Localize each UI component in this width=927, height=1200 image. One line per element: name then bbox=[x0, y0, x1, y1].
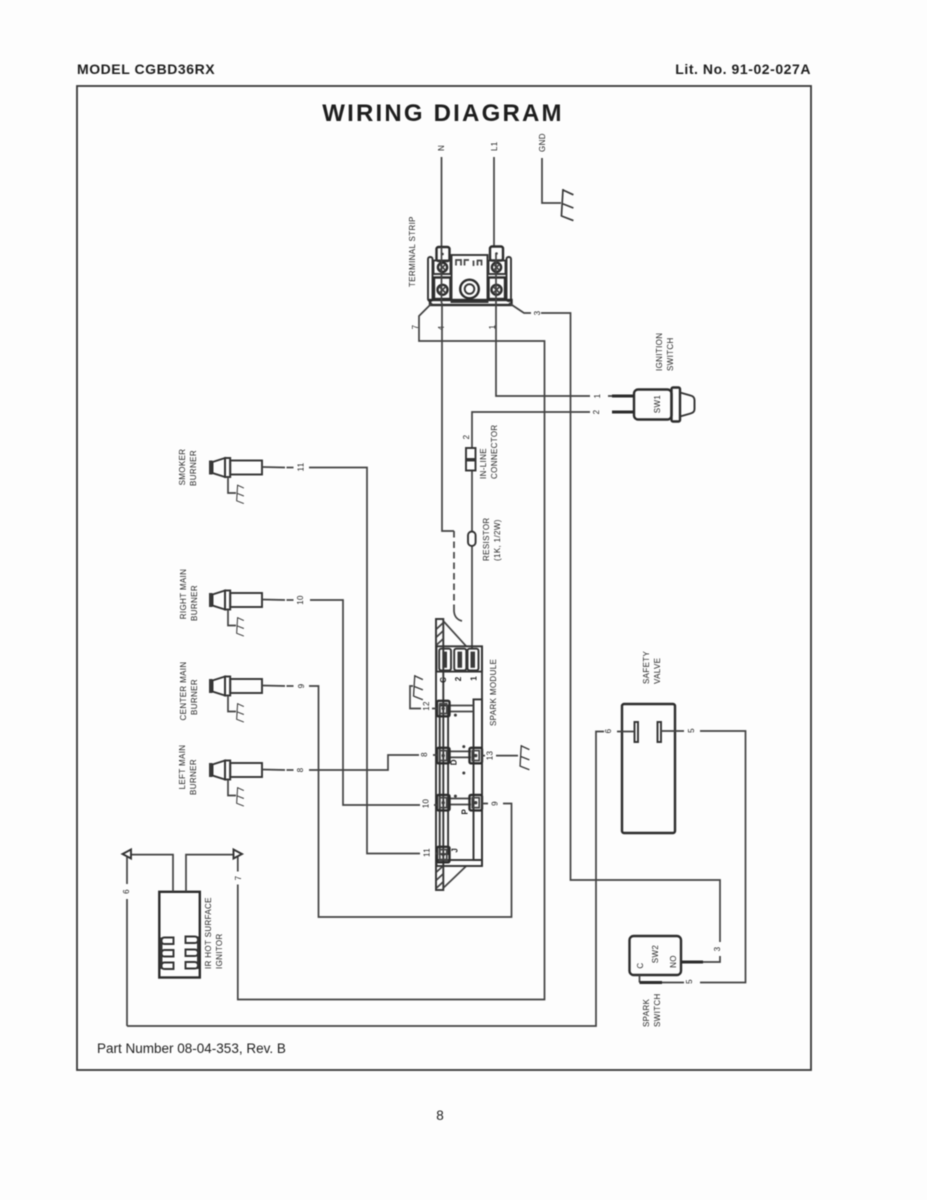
spade slots box bbox=[437, 646, 483, 671]
terminal strip left lower screw block bbox=[434, 278, 451, 300]
svg-text:L1: L1 bbox=[490, 141, 499, 151]
svg-text:CONNECTOR: CONNECTOR bbox=[490, 424, 499, 479]
wire 2: ignition switch to spark module via connector and resistor bbox=[472, 412, 590, 648]
ground at left main burner bbox=[237, 787, 244, 806]
svg-text:IR HOT SURFACE: IR HOT SURFACE bbox=[204, 897, 213, 969]
svg-text:11: 11 bbox=[297, 462, 306, 471]
ground chassis symbol at GND bbox=[561, 189, 573, 221]
wire 6: safety valve to IR ignitor connector bbox=[127, 732, 635, 1027]
svg-text:8: 8 bbox=[420, 752, 429, 757]
wire 4 dashed segment to spark module bbox=[453, 531, 455, 611]
terminal 13 bbox=[470, 748, 483, 764]
ground at smoker burner bbox=[237, 485, 244, 504]
ground at right main burner bbox=[237, 617, 244, 636]
SW2 body bbox=[630, 936, 682, 975]
svg-text:VALVE: VALVE bbox=[653, 658, 662, 684]
svg-text:8: 8 bbox=[436, 1108, 444, 1123]
svg-text:RIGHT MAIN: RIGHT MAIN bbox=[179, 569, 188, 619]
smoker burner ground lead bbox=[228, 477, 236, 493]
SW1 body bbox=[634, 390, 672, 420]
disconnect arrow 6 bbox=[123, 850, 132, 859]
SW2 C lead and spade bbox=[639, 975, 641, 983]
center main burner ground lead bbox=[228, 696, 236, 712]
svg-text:GND: GND bbox=[538, 133, 547, 152]
svg-text:CENTER MAIN: CENTER MAIN bbox=[179, 662, 188, 721]
svg-text:10: 10 bbox=[422, 799, 431, 809]
wire 9: terminal 9 to center main burner bbox=[309, 686, 512, 917]
ignitor body bbox=[159, 892, 200, 978]
svg-text:2: 2 bbox=[592, 409, 601, 414]
svg-text:6: 6 bbox=[122, 889, 131, 894]
terminal strip left quick-connect tab bbox=[437, 247, 450, 261]
wire 8: left main burner to terminal 8 bbox=[309, 755, 437, 770]
module left rib bbox=[440, 706, 448, 855]
svg-text:D: D bbox=[450, 759, 459, 765]
resistor R1 (1K, 1/2W) bbox=[468, 517, 502, 561]
svg-text:NO: NO bbox=[669, 955, 678, 968]
right main burner ground lead bbox=[228, 610, 236, 626]
svg-text:N: N bbox=[437, 145, 446, 151]
svg-text:IGNITION: IGNITION bbox=[655, 333, 664, 371]
svg-text:SPARK MODULE: SPARK MODULE bbox=[489, 659, 498, 726]
module rivet dots bbox=[454, 714, 457, 717]
terminal 11 bbox=[437, 847, 450, 863]
ground at center main burner bbox=[237, 703, 244, 722]
safety valve left terminal bar bbox=[635, 722, 639, 742]
SW1 button bbox=[680, 393, 695, 417]
spark module U1 bbox=[436, 619, 498, 890]
bottom gusset bbox=[443, 866, 466, 888]
terminal strip left mounting ear bbox=[428, 257, 433, 301]
terminal strip right quick-connect tab bbox=[490, 247, 503, 261]
spark switch SW2 bbox=[630, 936, 704, 1027]
svg-text:9: 9 bbox=[297, 683, 306, 688]
terminal strip base bbox=[430, 300, 512, 305]
svg-text:BURNER: BURNER bbox=[190, 679, 199, 715]
terminal strip right mounting ear bbox=[507, 257, 512, 301]
svg-text:1: 1 bbox=[593, 393, 602, 398]
wire GND lead bbox=[542, 158, 561, 203]
SW1 pin 1 bbox=[612, 395, 634, 398]
wire 5: safety valve to spark switch bbox=[661, 731, 746, 983]
svg-text:12: 12 bbox=[422, 701, 431, 711]
ignitor element right comb bbox=[186, 937, 199, 970]
spark module left mounting flange bbox=[436, 619, 443, 890]
SW1 pin 2 bbox=[612, 411, 634, 414]
svg-text:TERMINAL STRIP: TERMINAL STRIP bbox=[408, 216, 417, 287]
svg-text:(1K, 1/2W): (1K, 1/2W) bbox=[493, 519, 502, 561]
smoker burner igniter bbox=[209, 458, 294, 504]
terminal strip right upper screw block bbox=[489, 261, 506, 275]
module right rib bbox=[474, 699, 483, 860]
svg-text:BURNER: BURNER bbox=[189, 759, 198, 795]
svg-text:SWITCH: SWITCH bbox=[653, 993, 662, 1027]
wire N to terminal strip bbox=[441, 157, 443, 247]
svg-text:J: J bbox=[451, 848, 460, 852]
diagram border frame bbox=[77, 86, 811, 1070]
wire 10: right main burner to terminal 10 bbox=[310, 600, 437, 805]
svg-text:9: 9 bbox=[491, 801, 500, 806]
SW1 collar bbox=[672, 388, 681, 422]
svg-text:P: P bbox=[460, 808, 469, 814]
terminal strip TS1 bbox=[408, 216, 512, 305]
svg-text:10: 10 bbox=[296, 595, 305, 605]
right main burner igniter bbox=[209, 591, 294, 637]
ignitor left lead bbox=[131, 855, 173, 892]
svg-text:3: 3 bbox=[713, 946, 722, 951]
wire 1: terminal strip to ignition switch bbox=[496, 303, 612, 396]
bar terminal 8 to terminal 13 bbox=[450, 751, 472, 757]
terminal strip left upper screw block bbox=[434, 261, 451, 275]
svg-text:BURNER: BURNER bbox=[190, 585, 199, 621]
svg-text:5: 5 bbox=[687, 728, 696, 733]
svg-text:7: 7 bbox=[234, 875, 243, 880]
terminal 10 bbox=[437, 795, 450, 811]
wire terminal 13 to chassis ground bbox=[482, 755, 518, 757]
svg-text:MODEL CGBD36RX: MODEL CGBD36RX bbox=[77, 61, 215, 77]
svg-text:SW2: SW2 bbox=[651, 945, 660, 964]
wire terminal 12 to chassis ground bbox=[410, 686, 437, 709]
terminal 9 bbox=[470, 795, 483, 811]
svg-text:Lit. No. 91-02-027A: Lit. No. 91-02-027A bbox=[675, 61, 811, 77]
module body right edge bbox=[481, 646, 483, 866]
bar terminal 10 to terminal 9 bbox=[450, 799, 472, 805]
svg-text:RESISTOR: RESISTOR bbox=[482, 517, 491, 561]
terminal strip center screw boss bbox=[460, 280, 479, 299]
terminal 12 bbox=[437, 701, 450, 717]
safety valve body bbox=[622, 704, 675, 833]
left main burner ground lead bbox=[228, 780, 236, 796]
flange hatch top bbox=[437, 623, 444, 645]
svg-text:IN-LINE: IN-LINE bbox=[479, 448, 488, 479]
wire 3: terminal strip to spark switch NO bbox=[509, 303, 720, 962]
wire 11: smoker burner to terminal 11 bbox=[309, 468, 437, 854]
terminal strip center block bbox=[452, 255, 488, 302]
svg-text:2: 2 bbox=[454, 676, 463, 681]
module bottom bar bbox=[437, 860, 483, 866]
svg-text:SW1: SW1 bbox=[653, 395, 662, 414]
ground at spark module terminal 13 bbox=[520, 745, 529, 770]
ignitor element left comb bbox=[162, 938, 174, 970]
wire 4 hook at spark module bbox=[454, 611, 462, 621]
svg-text:C: C bbox=[439, 677, 448, 683]
svg-text:2: 2 bbox=[462, 434, 471, 439]
svg-text:SAFETY: SAFETY bbox=[642, 650, 651, 684]
safety valve bbox=[622, 650, 675, 833]
terminal 8 bbox=[437, 748, 450, 764]
svg-text:11: 11 bbox=[423, 848, 432, 857]
disconnect arrow 7 bbox=[234, 850, 243, 859]
IR hot surface ignitor bbox=[123, 850, 243, 978]
svg-text:6: 6 bbox=[604, 728, 613, 733]
terminal strip molded marking bbox=[456, 260, 482, 266]
svg-text:1: 1 bbox=[470, 676, 479, 681]
slot 1 bbox=[468, 649, 479, 671]
svg-text:WIRING DIAGRAM: WIRING DIAGRAM bbox=[322, 100, 563, 127]
ignition switch SW1 bbox=[592, 333, 695, 422]
svg-text:BURNER: BURNER bbox=[189, 450, 198, 486]
ignitor right lead bbox=[186, 855, 234, 892]
svg-text:Part Number 08-04-353, Rev. B: Part Number 08-04-353, Rev. B bbox=[97, 1041, 286, 1056]
terminal strip right lower screw block bbox=[489, 278, 506, 300]
center main burner igniter bbox=[209, 677, 294, 723]
left main burner igniter bbox=[209, 761, 294, 807]
safety valve right terminal bar bbox=[658, 722, 662, 742]
wire L1 to terminal strip bbox=[493, 157, 495, 247]
top gusset bbox=[443, 621, 466, 646]
in-line connector bbox=[466, 424, 499, 479]
SW2 NO spade bbox=[681, 961, 703, 964]
svg-text:SPARK: SPARK bbox=[642, 998, 651, 1027]
bar terminal 12 to right rib bbox=[450, 706, 474, 712]
slot C bbox=[439, 649, 451, 671]
svg-text:8: 8 bbox=[296, 767, 305, 772]
svg-text:LEFT MAIN: LEFT MAIN bbox=[178, 745, 187, 790]
svg-text:3: 3 bbox=[533, 310, 542, 315]
slot 2 bbox=[454, 649, 466, 671]
svg-text:5: 5 bbox=[685, 979, 694, 984]
svg-text:SMOKER: SMOKER bbox=[178, 449, 187, 486]
wire 7: terminal strip to IR ignitor connector bbox=[238, 303, 545, 1000]
flange hatch bottom bbox=[437, 866, 444, 888]
svg-text:C: C bbox=[636, 962, 645, 968]
wire N through strip bbox=[441, 247, 443, 303]
svg-text:IGNITOR: IGNITOR bbox=[215, 933, 224, 969]
svg-text:SWITCH: SWITCH bbox=[666, 337, 675, 371]
wire 4 solid segment from terminal strip bbox=[442, 303, 454, 531]
wire L1 through strip bbox=[495, 253, 497, 303]
svg-text:13: 13 bbox=[486, 751, 495, 761]
ground at spark module terminal 12 bbox=[414, 675, 423, 700]
